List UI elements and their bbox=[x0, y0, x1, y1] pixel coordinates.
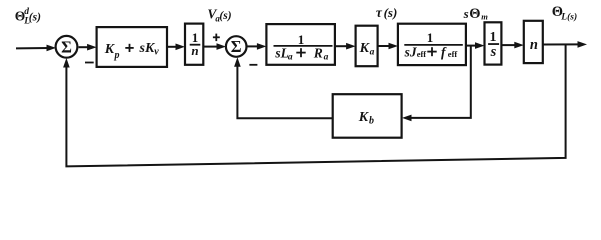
svg-text:1: 1 bbox=[427, 30, 434, 45]
svg-text:(s): (s) bbox=[219, 10, 231, 22]
svg-text:sL: sL bbox=[274, 46, 289, 61]
svg-text:L(s): L(s) bbox=[560, 12, 577, 23]
svg-text:R: R bbox=[313, 46, 323, 61]
svg-text:Σ: Σ bbox=[61, 37, 72, 56]
svg-text:s: s bbox=[490, 44, 497, 60]
svg-text:1: 1 bbox=[298, 32, 305, 47]
svg-text:s: s bbox=[463, 6, 469, 21]
svg-text:m: m bbox=[481, 12, 488, 22]
svg-text:(s): (s) bbox=[29, 12, 41, 24]
svg-text:a: a bbox=[324, 52, 329, 62]
svg-text:a: a bbox=[288, 52, 293, 62]
svg-text:v: v bbox=[154, 47, 159, 58]
svg-text:(s): (s) bbox=[384, 5, 398, 20]
svg-text:a: a bbox=[370, 48, 375, 58]
svg-text:n: n bbox=[530, 37, 538, 53]
svg-text:p: p bbox=[114, 50, 120, 61]
svg-text:1: 1 bbox=[490, 30, 497, 45]
svg-text:eff: eff bbox=[417, 49, 427, 59]
svg-text:n: n bbox=[191, 43, 198, 58]
svg-text:eff: eff bbox=[448, 49, 458, 59]
svg-text:b: b bbox=[369, 115, 374, 126]
svg-text:Θ: Θ bbox=[469, 6, 480, 22]
svg-text:K: K bbox=[358, 110, 370, 125]
svg-text:τ: τ bbox=[376, 5, 383, 20]
svg-text:Σ: Σ bbox=[231, 37, 242, 56]
